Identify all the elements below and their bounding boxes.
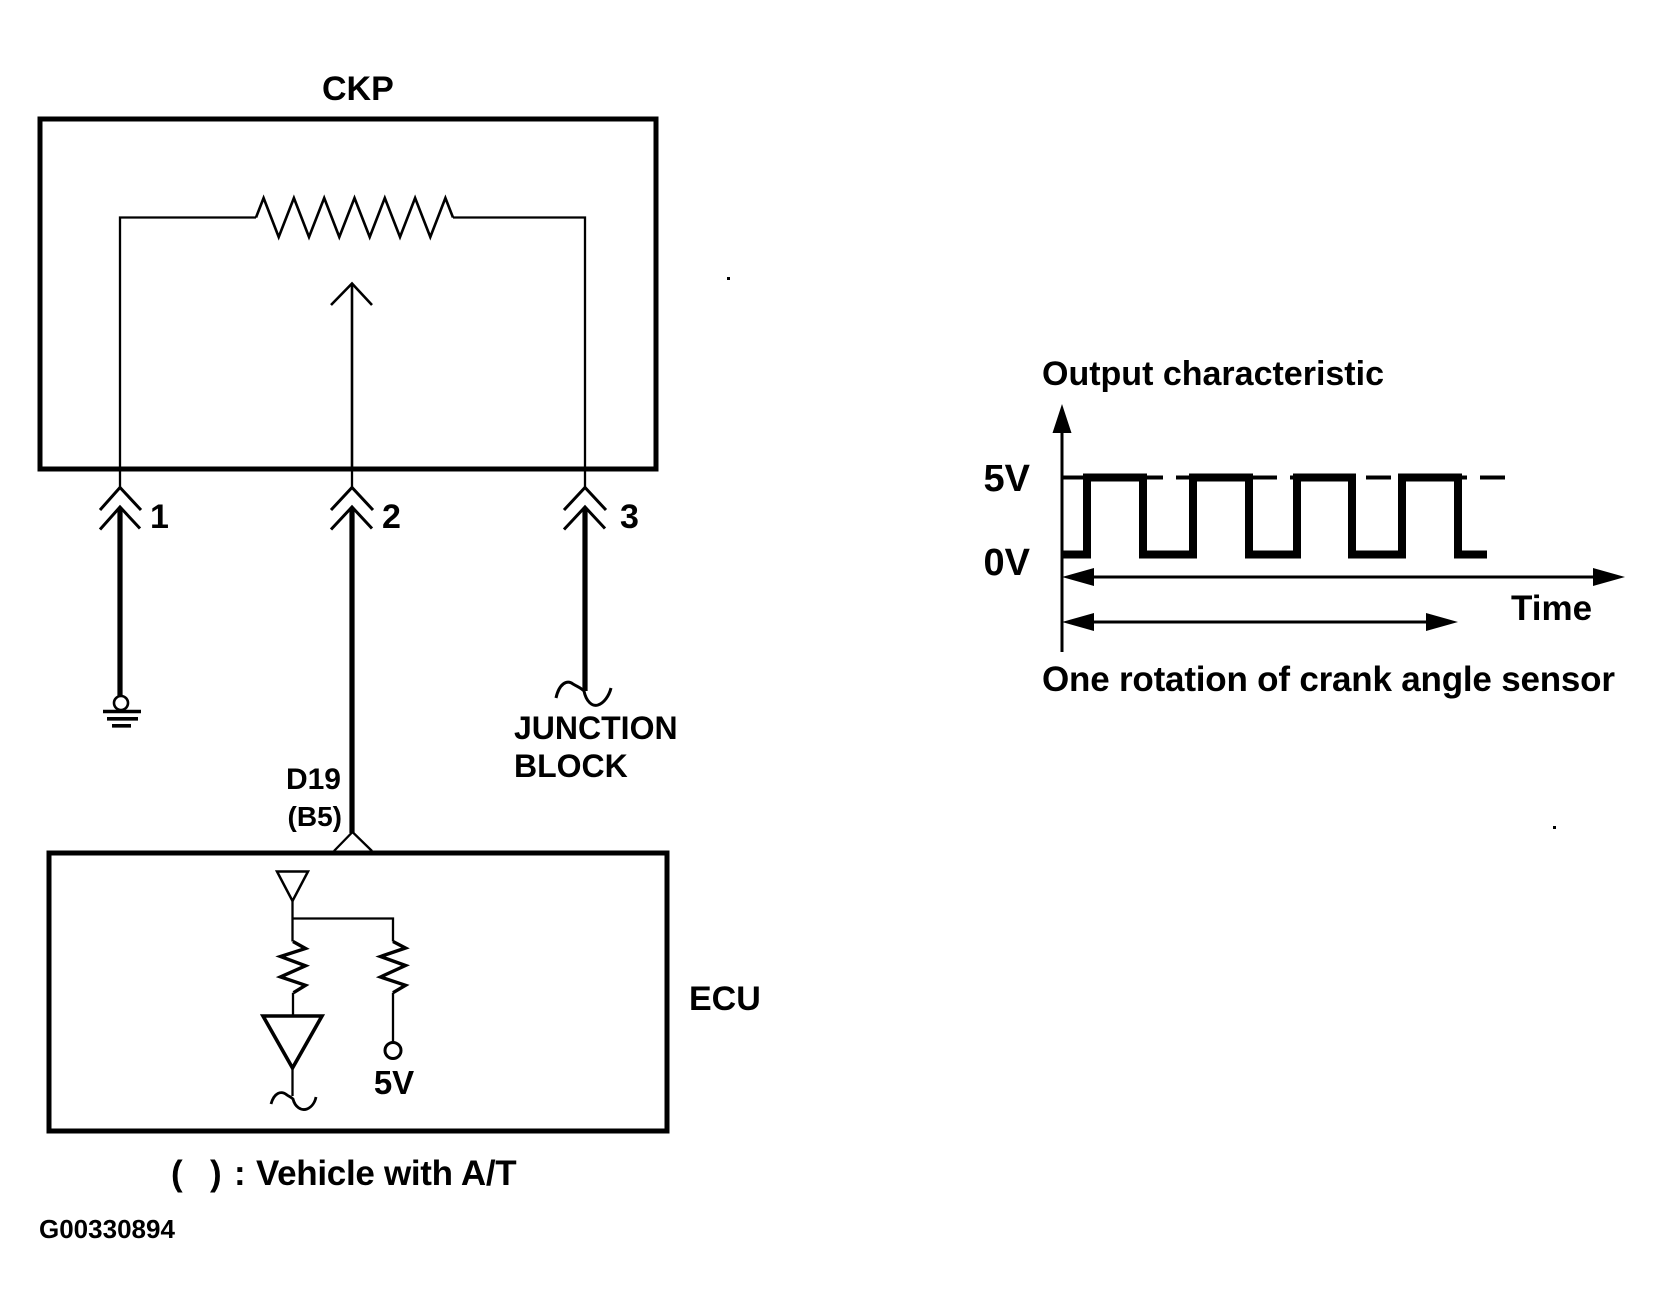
svg-text:5V: 5V (984, 458, 1031, 500)
svg-text:G00330894: G00330894 (39, 1214, 175, 1244)
resistor Rb (right, vertical) (381, 942, 406, 993)
svg-text:JUNCTION: JUNCTION (514, 710, 678, 746)
svg-text:BLOCK: BLOCK (514, 748, 628, 784)
wire pin3 to junction block (582, 508, 587, 691)
resistor Ra (left, vertical) (281, 942, 306, 993)
inverter triangle U2 (263, 1016, 322, 1068)
signal arrow (pickup output) (331, 284, 372, 470)
svg-text:(B5): (B5) (288, 801, 342, 832)
CKP sensor box (40, 119, 656, 469)
svg-text:1: 1 (150, 498, 169, 536)
ground G1 (103, 696, 141, 726)
svg-text:): ) (210, 1154, 222, 1193)
connector pin 2 (331, 488, 373, 530)
svg-text:One rotation of crank angle se: One rotation of crank angle sensor (1042, 660, 1615, 699)
wire pin2 stub below box (351, 469, 353, 487)
svg-text:2: 2 (382, 498, 401, 536)
svg-text:Time: Time (1511, 589, 1592, 628)
wire right lead of resistor (453, 218, 585, 470)
voltage axis (1061, 428, 1064, 652)
wire pin2 to ECU (349, 508, 354, 833)
output square wave (1062, 478, 1487, 555)
connector pin 1 (100, 488, 141, 530)
ECU terminal triangle (334, 832, 372, 851)
wire U2 to squiggle (291, 1068, 293, 1096)
wire pin1 to ground (117, 508, 122, 696)
svg-text:D19: D19 (286, 763, 341, 796)
svg-text:ECU: ECU (689, 980, 761, 1018)
resistor (coil winding in CKP) (256, 198, 453, 237)
node tee wire (293, 919, 394, 942)
squiggle connector (271, 1093, 316, 1110)
wire from U1 to node (291, 901, 293, 942)
svg-text:Output characteristic: Output characteristic (1042, 355, 1384, 393)
buffer input triangle U1 (277, 872, 308, 902)
ECU box (49, 853, 667, 1131)
svg-text:5V: 5V (374, 1064, 414, 1101)
5V reference dashed line (1062, 476, 1513, 480)
wire pin1 stub below box (119, 469, 121, 487)
speck noise dots (727, 277, 730, 280)
wire pin3 stub below box (584, 469, 586, 487)
wire left lead of resistor (120, 218, 256, 470)
wire Rb to 5V terminal (392, 993, 394, 1042)
svg-text:Vehicle with A/T: Vehicle with A/T (256, 1154, 516, 1193)
svg-text:(: ( (171, 1154, 183, 1193)
connector pin 3 (564, 488, 606, 530)
svg-text:0V: 0V (984, 542, 1031, 584)
wire Ra to inverter (292, 993, 294, 1016)
5V terminal circle (385, 1043, 401, 1059)
one rotation span arrow (1062, 613, 1458, 631)
svg-text:3: 3 (620, 498, 639, 536)
time axis double arrow (1062, 568, 1625, 586)
svg-text::: : (234, 1154, 246, 1193)
svg-text:CKP: CKP (322, 70, 394, 108)
junction block connector symbol (556, 682, 611, 705)
